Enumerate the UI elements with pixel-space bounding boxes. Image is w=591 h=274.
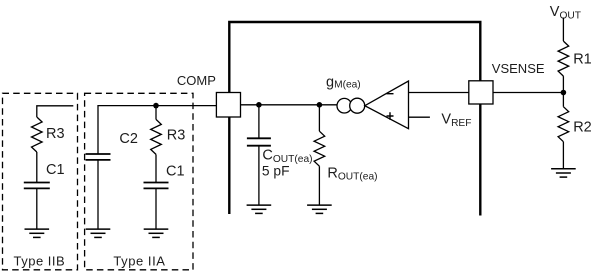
svg-text:VOUT: VOUT [550, 4, 581, 21]
wire C2 to ground [97, 161, 99, 230]
svg-text:ROUT(ea): ROUT(ea) [327, 165, 377, 182]
svg-text:C2: C2 [119, 131, 138, 147]
svg-text:C1: C1 [166, 164, 185, 180]
wire: Type IIA top rail to COMP [98, 106, 216, 154]
svg-text:gM(ea): gM(ea) [326, 75, 361, 91]
op-amp plus sign [387, 112, 394, 120]
node VSENSE: square [469, 81, 493, 104]
svg-text:5 pF: 5 pF [262, 164, 290, 179]
Type IIB dashed box [3, 93, 78, 269]
node: junction dot (COUT branch) [256, 102, 262, 108]
capacitor COUT(ea) [247, 138, 271, 145]
svg-text:COMP: COMP [177, 73, 216, 88]
wire: thick stub below COMP [228, 117, 230, 214]
resistor R2 [558, 107, 569, 142]
svg-text:R2: R2 [573, 120, 591, 136]
wire: thick stub below VSENSE [479, 104, 481, 216]
ground (R2) [551, 169, 576, 177]
wire COUT to ground [258, 146, 260, 205]
capacitor C1 (Type IIB) [24, 183, 50, 189]
svg-text:R3: R3 [167, 128, 186, 144]
ground (C2) [86, 229, 111, 237]
svg-text:Type IIB: Type IIB [14, 254, 66, 269]
op-amp U1: gm current-source circles [337, 98, 352, 113]
resistor ROUT(ea) [314, 131, 325, 166]
wire: VOUT to R1 [562, 18, 564, 41]
op-amp U1: triangle [365, 81, 409, 129]
ground (C1 Type IIA) [144, 229, 169, 237]
capacitor C1 (Type IIA) [144, 183, 169, 189]
ground (Type IIB) [25, 229, 50, 237]
wire R3 to C1 (Type IIA) [155, 154, 157, 182]
ground (ROUT) [307, 205, 332, 213]
wire: VSENSE to divider [493, 92, 563, 94]
capacitor C2 (Type IIA) [86, 154, 111, 160]
node: junction dot (divider) [561, 90, 567, 96]
wire: inverting input to VSENSE [409, 92, 469, 94]
wire ROUT to ground [318, 166, 320, 205]
node: junction dot (ROUT branch) [317, 102, 323, 108]
resistor R1 [558, 41, 569, 76]
node: junction dot (Type IIA top) [153, 103, 159, 109]
node COMP: square [216, 93, 240, 118]
resistor R3 (Type IIA) [151, 119, 162, 154]
resistor R3 (Type IIB) [32, 117, 43, 152]
wire: to ROUT(ea) [318, 105, 320, 131]
wire: junction to R3 (Type IIA) [155, 106, 157, 120]
wire R3 to C1 (Type IIB) [36, 152, 38, 182]
svg-text:Type IIA: Type IIA [113, 254, 165, 269]
wire: R2 to ground [562, 142, 564, 169]
wire: Type IIB top stub [37, 106, 74, 117]
wire: non-inverting input to VREF [409, 116, 430, 118]
wire C1 to ground (Type IIB) [36, 189, 38, 229]
ground (COUT) [247, 205, 272, 213]
wire: feedback loop (thick) [229, 22, 480, 93]
wire: R1 to R2 [562, 76, 564, 107]
svg-text:R1: R1 [573, 52, 591, 68]
wire: COMP output rail to gm input [241, 104, 338, 106]
Type IIA dashed box [85, 93, 193, 269]
svg-text:VREF: VREF [441, 112, 471, 129]
svg-text:COUT(ea): COUT(ea) [262, 148, 312, 165]
svg-text:C1: C1 [46, 162, 65, 178]
wire C1 to ground (Type IIA) [155, 189, 157, 229]
svg-text:VSENSE: VSENSE [492, 61, 545, 76]
op-amp minus sign [387, 93, 394, 95]
wire: to COUT(ea) [258, 105, 260, 138]
svg-text:R3: R3 [46, 126, 65, 142]
